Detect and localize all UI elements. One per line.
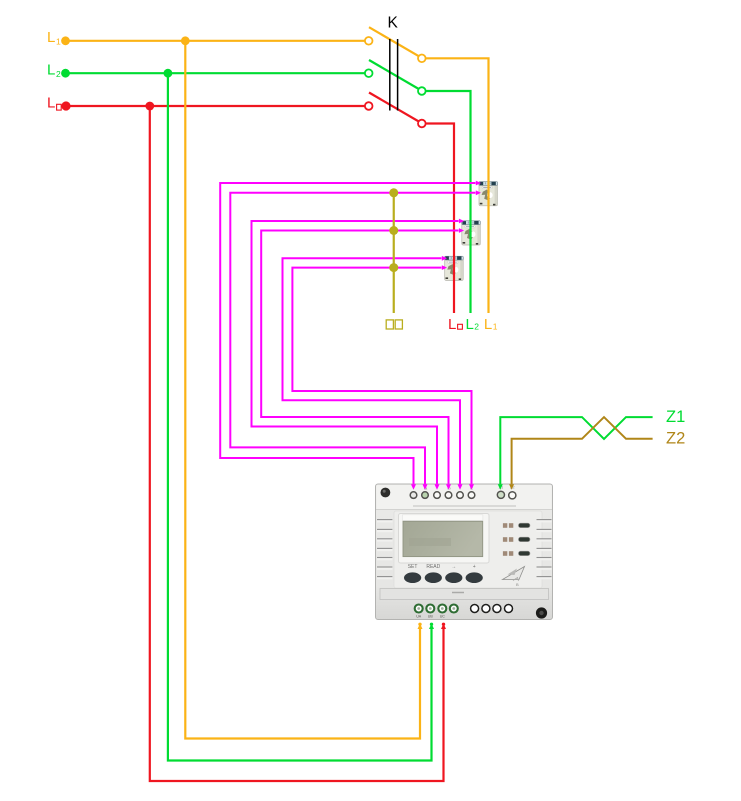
svg-text:L: L xyxy=(448,316,456,333)
wire CT1 S2 to meter terminal 2 xyxy=(230,193,475,484)
svg-text:K: K xyxy=(388,15,399,32)
meter button labels xyxy=(408,564,476,570)
node L3 source dot xyxy=(61,101,70,110)
switch K terminal circle L1 right xyxy=(418,55,426,63)
meter button SET xyxy=(404,572,421,583)
meter terminal Ia xyxy=(422,492,429,499)
switch K linkage bar 2 xyxy=(397,39,399,111)
switch K blade L3 xyxy=(369,93,421,123)
meter vents left xyxy=(377,519,392,579)
arrow into CT2 S1 xyxy=(459,219,464,224)
meter button READ xyxy=(425,572,442,583)
wire L2 from switch through CT2 xyxy=(426,91,471,313)
arrow into CT3 S2 xyxy=(442,265,447,270)
switch K blade L1 xyxy=(369,27,421,57)
arrow into meter Ub xyxy=(429,624,434,630)
meter screw top-left xyxy=(381,488,391,498)
label L1 xyxy=(47,29,61,46)
CT transformer T3 (on L3) xyxy=(445,256,464,280)
arrow into meter Uc xyxy=(441,624,446,630)
wire Z1 pulse output xyxy=(500,417,652,484)
svg-text:L: L xyxy=(47,94,55,111)
arrow into meter Ua xyxy=(418,624,423,630)
wire L1 from switch through CT1 xyxy=(426,58,489,313)
wire L3 to meter Uc xyxy=(150,106,444,781)
arrow into meter terminal 2 xyxy=(423,484,428,490)
label L1 out xyxy=(484,316,498,333)
svg-text:1: 1 xyxy=(56,36,61,46)
arrow into meter terminal 1 xyxy=(411,484,416,490)
label L3 out xyxy=(448,316,462,333)
wire L2 to meter Ub xyxy=(168,73,432,760)
arrow into meter terminal 5 xyxy=(458,484,463,490)
meter terminal Ub xyxy=(426,605,434,613)
arrow into meter terminal 6 xyxy=(469,484,474,490)
svg-text:L: L xyxy=(484,316,492,333)
arrow into meter terminal 3 xyxy=(435,484,440,490)
junction common at CT2 S2 xyxy=(389,226,398,235)
arrow into meter terminal Z2 xyxy=(509,484,514,490)
meter LED row 3 xyxy=(503,551,530,556)
switch K terminal circle L2 left xyxy=(365,69,373,77)
meter bottom terminal labels xyxy=(416,615,445,619)
svg-text:2: 2 xyxy=(474,322,479,332)
meter screw bottom-right xyxy=(536,607,547,618)
switch K terminal circle L2 right xyxy=(418,87,426,95)
svg-text:L: L xyxy=(47,29,55,46)
svg-text:Z2: Z2 xyxy=(666,430,685,448)
wire Z2 pulse output xyxy=(512,417,653,484)
svg-text:UC: UC xyxy=(440,615,446,619)
switch K terminal circle L3 left xyxy=(365,102,373,110)
meter terminal Un xyxy=(450,605,458,613)
wire CT2 S2 to meter terminal 4 xyxy=(261,231,458,485)
meter energy meter body xyxy=(376,484,553,620)
CT transformer T2 (on L2) xyxy=(462,221,481,245)
junction common at CT3 S2 xyxy=(389,263,398,272)
meter terminal Z2 xyxy=(509,492,516,499)
meter aux hole 2 xyxy=(482,605,490,613)
wire L2 bus xyxy=(66,72,365,74)
switch K blade L2 xyxy=(369,60,421,90)
node L2 source dot xyxy=(61,69,70,78)
junction L1 tap to Ua xyxy=(181,36,190,45)
svg-text:SET: SET xyxy=(408,564,418,570)
junction L2 tap to Ub xyxy=(164,69,173,78)
meter aux hole 1 xyxy=(471,605,479,613)
arrow into CT3 S1 xyxy=(442,256,447,261)
svg-text:Z1: Z1 xyxy=(666,408,685,426)
meter terminal Ib* xyxy=(434,492,441,499)
arrow into meter terminal Z1 xyxy=(498,484,503,490)
meter LED row 2 xyxy=(503,537,530,542)
wire L1 to meter Ua xyxy=(185,41,420,739)
svg-text:B: B xyxy=(516,582,519,587)
svg-text:L: L xyxy=(466,316,474,333)
arrow into CT2 S2 xyxy=(459,228,464,233)
arrow into CT1 S1 xyxy=(476,181,481,186)
wire CT secondary common xyxy=(393,193,395,313)
meter terminal Ib xyxy=(445,492,452,499)
label L2 out xyxy=(466,316,480,333)
meter terminal Uc xyxy=(438,605,446,613)
label L2 xyxy=(47,61,61,78)
meter vents right xyxy=(537,519,552,579)
meter terminal Z1 xyxy=(497,491,504,498)
CT transformer T1 (on L1) xyxy=(479,182,498,206)
label common (boxes) xyxy=(386,320,402,329)
meter LED row 1 xyxy=(503,523,530,528)
meter aux hole 4 xyxy=(505,605,513,613)
meter terminal Ic* xyxy=(457,492,464,499)
switch K linkage bar 1 xyxy=(389,39,391,111)
svg-text:2: 2 xyxy=(56,69,61,79)
junction L3 tap to Uc xyxy=(145,102,154,111)
wire CT3 S1 to meter terminal 5 xyxy=(283,258,461,484)
svg-text:UB: UB xyxy=(428,615,434,619)
svg-text:READ: READ xyxy=(426,564,440,570)
switch K terminal circle L3 right xyxy=(418,120,426,128)
node L1 source dot xyxy=(61,36,70,45)
wire L1 bus xyxy=(66,40,365,42)
wire L3 from switch through CT3 xyxy=(426,124,454,314)
meter terminal Ic xyxy=(468,492,475,499)
svg-text:UA: UA xyxy=(416,615,422,619)
arrow into CT1 S2 xyxy=(476,190,481,195)
wire CT1 S1 to meter terminal 1 xyxy=(220,183,475,484)
junction common at CT1 S2 xyxy=(389,188,398,197)
label L3 xyxy=(47,94,61,111)
wire CT3 S2 to meter terminal 6 xyxy=(292,268,471,485)
wire CT2 S1 to meter terminal 3 xyxy=(252,221,459,484)
svg-text:→: → xyxy=(451,564,456,570)
arrow into meter terminal 4 xyxy=(446,484,451,490)
meter lower groove xyxy=(380,589,549,600)
meter terminal Ua xyxy=(415,605,423,613)
meter button arrow xyxy=(445,572,462,583)
meter button plus xyxy=(466,572,483,583)
meter logo xyxy=(503,567,525,587)
switch K terminal circle L1 left xyxy=(365,37,373,45)
meter aux hole 3 xyxy=(493,605,501,613)
meter terminal Ia* xyxy=(410,492,417,499)
svg-text:L: L xyxy=(47,61,55,78)
svg-text:1: 1 xyxy=(493,322,498,332)
svg-text:+: + xyxy=(473,564,476,570)
meter LCD xyxy=(399,514,490,564)
wire L3 bus xyxy=(66,105,365,107)
terminal tiny labels xyxy=(424,485,516,491)
